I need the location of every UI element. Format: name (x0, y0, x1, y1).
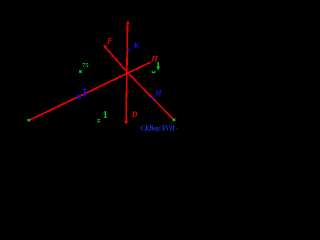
arrowhead green down arrow near P (157, 62, 159, 66)
arrowhead F at upper-left end (103, 45, 107, 49)
svg-text:M: M (154, 88, 162, 97)
node green dot at diagonal lower-right end (173, 118, 176, 121)
node green u mark (152, 71, 155, 73)
vector F diagonal line through center (104, 46, 127, 72)
node green dot below 75 (79, 70, 82, 73)
svg-text:F: F (106, 35, 113, 45)
svg-text:1: 1 (103, 110, 108, 121)
arrowhead rod upper-right end (149, 62, 152, 64)
svg-text:D: D (131, 110, 138, 119)
node blue tick on vertical line (127, 48, 130, 51)
node green dot at rod lower-left end (27, 119, 30, 122)
node green equals mark (97, 119, 100, 121)
svg-text:75: 75 (82, 62, 88, 69)
wire rod line lower-left to upper-right (29, 63, 150, 121)
node top arrow dot of vertical line (127, 22, 130, 25)
svg-text:CKBuy/XVII -: CKBuy/XVII - (141, 125, 179, 133)
svg-text:Π: Π (150, 54, 158, 64)
arrowhead blue on diagonal near M (152, 96, 156, 100)
svg-text:K: K (133, 41, 140, 50)
vector vertical axis line (126, 23, 128, 121)
arrowhead blue down arrow with top bar above rod (82, 88, 87, 91)
node blue x mark on rod (77, 95, 80, 99)
arrowhead D bottom of vertical line (124, 121, 128, 125)
